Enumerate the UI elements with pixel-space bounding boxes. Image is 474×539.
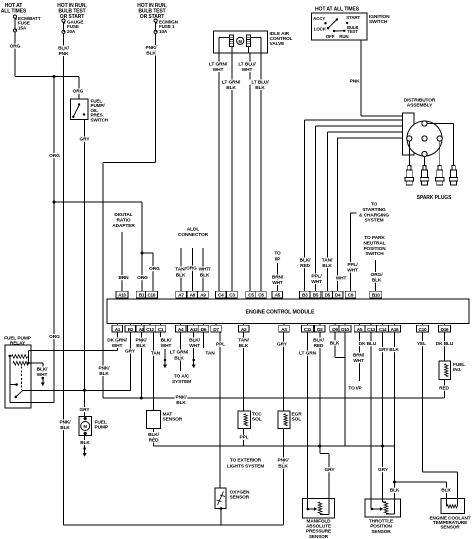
svg-text:BLK: BLK [330,340,340,346]
svg-text:C12: C12 [146,327,154,332]
svg-text:TO I/P: TO I/P [348,386,362,392]
svg-text:BLK/: BLK/ [313,338,325,344]
svg-text:BLK/: BLK/ [148,432,160,438]
svg-text:A8: A8 [190,293,196,298]
svg-text:I/P: I/P [275,256,281,262]
svg-text:LT GRN: LT GRN [299,351,317,357]
svg-text:A16: A16 [391,327,399,332]
svg-text:A5: A5 [357,327,363,332]
svg-text:D7: D7 [213,327,219,332]
svg-text:ORG: ORG [149,266,160,272]
svg-text:GRY: GRY [80,137,91,143]
svg-text:WHT: WHT [336,276,347,282]
svg-text:FUEL PUMP: FUEL PUMP [4,336,32,342]
svg-text:SENSOR: SENSOR [309,534,329,539]
svg-text:PPL/: PPL/ [347,262,358,268]
svg-text:TAN: TAN [151,351,161,357]
svg-text:BLK: BLK [255,85,265,91]
svg-text:D10: D10 [341,327,349,332]
svg-text:WHT: WHT [161,343,172,349]
svg-text:PNK/: PNK/ [175,394,187,400]
svg-text:ORG: ORG [49,334,60,340]
svg-text:RED: RED [149,437,159,443]
svg-text:A2: A2 [241,327,247,332]
svg-text:D5: D5 [325,293,331,298]
svg-text:SENSOR: SENSOR [230,495,250,501]
svg-text:ADAPTER: ADAPTER [112,223,135,229]
svg-text:WHT: WHT [189,343,200,349]
svg-text:GRY: GRY [125,349,136,355]
svg-text:D2: D2 [317,327,323,332]
svg-text:YEL: YEL [417,341,426,347]
svg-text:C6: C6 [258,293,264,298]
svg-text:LIGHTS SYSTEM: LIGHTS SYSTEM [227,464,264,470]
svg-text:SWITCH: SWITCH [365,251,384,257]
svg-text:ORG: ORG [137,275,148,281]
svg-text:HOT AT ALL TIMES: HOT AT ALL TIMES [315,7,360,13]
svg-text:C3: C3 [229,293,235,298]
svg-text:TO: TO [371,202,378,208]
svg-text:A5: A5 [275,293,281,298]
svg-text:EGR: EGR [292,412,303,418]
svg-text:B3: B3 [302,293,308,298]
svg-text:15A: 15A [18,25,27,30]
svg-text:ALDL: ALDL [187,227,200,233]
svg-text:ENGINE CONTROL MODULE: ENGINE CONTROL MODULE [246,310,315,316]
svg-text:PNK/: PNK/ [59,420,71,426]
svg-text:BLK/: BLK/ [189,338,201,344]
svg-text:LOCK: LOCK [314,26,327,31]
svg-text:LT BLU/: LT BLU/ [238,62,256,68]
svg-text:& CHARGING: & CHARGING [359,212,389,218]
svg-text:ACCY: ACCY [313,16,325,21]
svg-text:RED: RED [300,263,310,269]
svg-text:C13: C13 [367,327,375,332]
svg-text:DK BLU: DK BLU [436,341,454,347]
svg-text:D16: D16 [441,327,449,332]
svg-text:GRY: GRY [325,467,336,473]
svg-text:BLK: BLK [176,400,186,406]
svg-text:BLK/: BLK/ [58,46,70,52]
svg-text:BRN/: BRN/ [353,353,365,359]
svg-text:C10: C10 [419,327,427,332]
svg-text:ORG: ORG [10,44,21,50]
svg-text:10A: 10A [159,29,168,34]
svg-text:WHT: WHT [242,67,253,73]
svg-text:BLK: BLK [322,263,332,269]
svg-text:C5: C5 [248,293,254,298]
svg-text:CONNECTOR: CONNECTOR [178,232,209,238]
svg-text:LT GRN/: LT GRN/ [222,80,241,86]
svg-text:D9: D9 [332,327,338,332]
svg-text:MAT: MAT [163,412,173,418]
svg-text:PPL: PPL [239,435,248,441]
svg-text:A9: A9 [200,293,206,298]
svg-text:BRN/: BRN/ [272,275,284,281]
svg-text:TO A/C: TO A/C [174,374,190,380]
svg-text:TEST: TEST [348,29,359,34]
svg-text:SWITCH: SWITCH [91,117,109,122]
svg-text:BLK: BLK [99,371,109,377]
svg-text:PNK/: PNK/ [135,338,147,344]
svg-text:A1: A1 [115,327,121,332]
svg-text:PNK: PNK [59,51,69,57]
svg-text:BLK: BLK [226,85,236,91]
svg-text:SYSTEM: SYSTEM [172,379,191,385]
svg-text:DIGITAL: DIGITAL [114,212,132,218]
svg-text:BLK/: BLK/ [37,367,49,373]
svg-text:GRY: GRY [379,347,390,353]
svg-text:LT GRN/: LT GRN/ [170,350,189,356]
svg-text:B5: B5 [313,293,319,298]
svg-text:20A: 20A [67,29,76,34]
svg-text:OFF: OFF [326,34,335,39]
svg-text:D4: D4 [335,293,341,298]
svg-text:PPL: PPL [216,342,225,348]
svg-text:WHT: WHT [213,67,224,73]
svg-text:POSITION: POSITION [363,246,386,252]
svg-text:IGNITION: IGNITION [369,14,390,20]
svg-text:SPARK PLUGS: SPARK PLUGS [417,195,452,201]
svg-text:GRY: GRY [80,407,91,413]
svg-text:RED: RED [314,343,324,349]
svg-text:RATIO: RATIO [116,217,130,223]
svg-text:BLK: BLK [372,277,382,283]
svg-text:PNK/: PNK/ [98,366,110,372]
svg-text:INJ.: INJ. [453,367,461,373]
svg-text:A10: A10 [118,293,126,298]
svg-text:OXYGEN: OXYGEN [230,490,251,496]
svg-text:FUEL: FUEL [95,420,107,426]
svg-text:C11: C11 [304,327,312,332]
svg-text:SWITCH: SWITCH [369,19,388,25]
svg-text:SENSOR: SENSOR [440,525,460,530]
svg-text:B2: B2 [128,327,134,332]
svg-text:SENSOR: SENSOR [371,529,391,534]
svg-text:VALVE: VALVE [270,41,286,47]
svg-text:C4: C4 [218,293,224,298]
svg-text:BLK: BLK [441,488,451,494]
svg-text:SOL: SOL [292,417,302,423]
svg-text:PNK: PNK [350,79,360,85]
svg-text:C16: C16 [147,293,155,298]
svg-text:BLK: BLK [80,440,90,446]
svg-text:B1: B1 [139,293,145,298]
svg-text:TCC: TCC [252,412,262,418]
svg-text:C9: C9 [348,293,354,298]
svg-text:SYSTEM: SYSTEM [364,218,383,224]
svg-text:A3: A3 [281,327,287,332]
svg-text:BLK: BLK [278,464,288,470]
svg-text:LT GRN/: LT GRN/ [209,62,228,68]
svg-text:PNK/: PNK/ [277,458,289,464]
svg-text:PPL/: PPL/ [311,274,322,280]
svg-text:BLK/: BLK/ [300,258,312,264]
svg-text:TAN: TAN [205,351,215,357]
svg-text:RUN: RUN [339,34,348,39]
svg-text:DK BLU: DK BLU [359,341,377,347]
svg-text:LT BLU/: LT BLU/ [251,80,269,86]
svg-text:A12: A12 [190,327,198,332]
svg-text:TO PARK: TO PARK [364,235,385,241]
svg-text:PUMP: PUMP [95,425,109,431]
svg-text:C1: C1 [158,327,164,332]
svg-text:BLK: BLK [146,50,156,56]
svg-text:TAN/: TAN/ [322,258,333,264]
svg-text:SOL: SOL [252,417,262,423]
svg-text:TAN/: TAN/ [238,338,249,344]
svg-text:BLK: BLK [174,355,184,361]
svg-text:TAN/: TAN/ [175,267,186,273]
svg-text:ASSEMBLY: ASSEMBLY [407,103,433,109]
svg-text:ORG: ORG [73,89,84,95]
svg-text:PNK/: PNK/ [145,45,157,51]
svg-text:WHT: WHT [311,279,322,285]
svg-text:RED: RED [439,386,449,392]
svg-text:START: START [346,15,360,20]
svg-text:BLK: BLK [136,343,146,349]
svg-text:ORG: ORG [49,153,60,159]
svg-text:BLK: BLK [176,272,186,278]
svg-text:SENSOR: SENSOR [163,417,183,423]
svg-text:GRY: GRY [277,342,288,348]
svg-text:BLK: BLK [389,347,399,353]
svg-text:NEUTRAL: NEUTRAL [363,240,385,246]
svg-text:ORG: ORG [186,266,197,272]
svg-text:M: M [239,39,243,44]
svg-text:C14: C14 [379,327,387,332]
svg-text:ORG/: ORG/ [371,272,384,278]
svg-text:WHT: WHT [347,267,358,273]
svg-text:WHT: WHT [353,358,364,364]
svg-text:A7: A7 [178,293,184,298]
svg-text:STARTING: STARTING [362,207,386,213]
svg-text:D6: D6 [201,327,207,332]
svg-text:B10: B10 [372,293,380,298]
svg-text:WHT/: WHT/ [199,267,212,273]
svg-text:DK GRN/: DK GRN/ [107,338,127,344]
svg-text:GRY: GRY [378,467,389,473]
svg-text:FUEL: FUEL [453,362,465,368]
svg-text:BRN: BRN [118,275,129,281]
svg-text:BLK: BLK [200,272,210,278]
svg-text:DISTRIBUTOR: DISTRIBUTOR [404,98,436,104]
svg-text:A4: A4 [178,327,184,332]
svg-text:WHT: WHT [272,280,283,286]
svg-text:M: M [83,424,87,429]
svg-text:BLK: BLK [60,425,70,431]
svg-text:BLK/: BLK/ [161,338,173,344]
svg-text:BLK: BLK [390,488,400,494]
svg-text:BLK: BLK [239,343,249,349]
svg-text:WHT: WHT [112,343,123,349]
svg-text:TO: TO [274,251,281,257]
svg-text:ALL TIMES: ALL TIMES [1,8,27,14]
svg-text:TO EXTERIOR: TO EXTERIOR [230,458,262,464]
